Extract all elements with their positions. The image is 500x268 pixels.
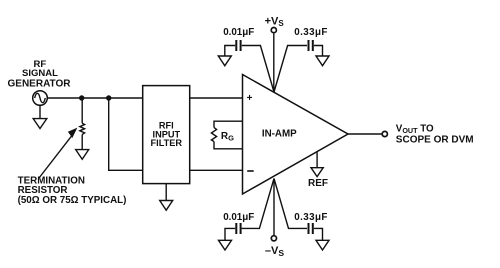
svg-text:SCOPE OR DVM: SCOPE OR DVM [396,135,474,146]
svg-text:0.33μF: 0.33μF [294,27,327,38]
svg-text:0.01μF: 0.01μF [223,212,254,223]
svg-text:REF: REF [308,178,328,189]
svg-text:IN-AMP: IN-AMP [262,129,297,140]
svg-text:(50Ω OR 75Ω TYPICAL): (50Ω OR 75Ω TYPICAL) [18,195,127,206]
svg-text:+: + [247,93,253,104]
svg-text:GENERATOR: GENERATOR [8,78,72,89]
svg-text:0.33μF: 0.33μF [294,212,327,223]
svg-text:+VS: +VS [265,16,285,29]
svg-text:VOUT TO: VOUT TO [396,123,434,135]
svg-text:–VS: –VS [265,245,284,258]
svg-text:RG: RG [221,131,234,143]
svg-text:FILTER: FILTER [151,138,183,148]
svg-text:0.01μF: 0.01μF [223,27,254,38]
